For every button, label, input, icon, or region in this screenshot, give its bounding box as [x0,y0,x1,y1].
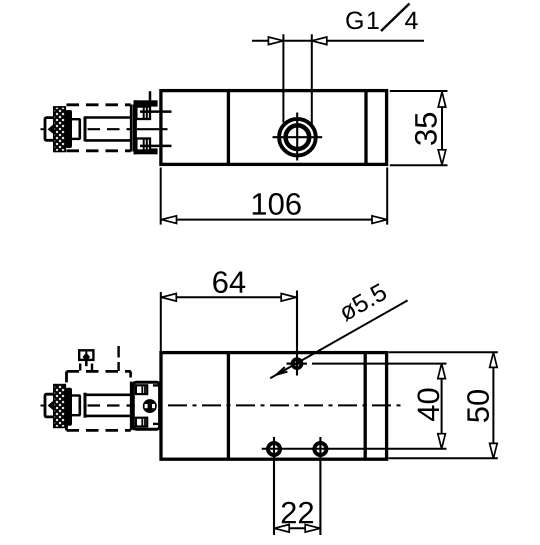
port stub line upper [140,110,172,113]
dim 106 line [162,219,388,221]
port crosshair vertical [296,113,298,161]
end plate line 2 [133,382,136,431]
stem top line [72,394,81,396]
connector wedge [83,353,91,362]
dim 40 top extension [312,363,447,365]
label G1/4 [346,12,378,30]
dim 64 dimension line [162,296,297,298]
centerline stub left [41,128,49,130]
collar line [84,116,87,141]
holes connecting line + 40 bottom extension [262,448,447,450]
dim 50 bottom extension [389,457,498,459]
label 64 [213,271,245,293]
label 50 [467,390,489,422]
dim 50 top extension [389,351,498,353]
dim 35 line [441,92,443,165]
connector pedestal dash left [79,364,81,371]
body inner line right [364,91,367,165]
tube centerline dashes [88,128,131,130]
dim 64 arrow right [281,294,296,302]
knurled knob [54,107,66,152]
dim 106 extension right [386,168,388,225]
dim 22 line [274,527,320,529]
end plate line 2 [133,105,136,152]
dim 35 arrow down [438,150,446,165]
port crosshair horizontal [273,136,323,138]
dim 64 arrow left [161,294,176,302]
cap cone [48,400,55,411]
clamp block top hatch [143,108,145,119]
G1/4 port inner circle [286,125,310,149]
dim 106 arrow right [372,216,387,224]
dim 106 extension left [160,168,162,225]
dashed coil box [67,105,131,151]
clamp block top [136,385,147,394]
centerline stub left [41,405,49,407]
stem end line [79,119,82,139]
label 35 [415,113,437,145]
collar line [84,393,87,418]
knob flange [65,388,72,426]
clamp block bottom [136,418,147,427]
stem bottom line [72,414,81,416]
dashed coil box left [65,371,68,430]
screw slot marks [145,404,148,408]
dim 22 arrow left [274,525,289,533]
dim 22 arrow right [305,525,320,533]
body inner line left [227,91,230,165]
dashed vertical at coil right [117,346,119,371]
tick above bracket [149,91,152,100]
connector pin line [85,350,87,355]
stem end line [79,396,82,416]
screw head [143,399,157,413]
dim 40 arrow up [438,364,446,379]
G1/4 arrow right (points left) [312,37,327,45]
mounting hole right [314,443,326,455]
G1/4 extension line right [311,34,313,124]
G1/4 port outer circle [279,119,316,156]
mounting hole left [268,443,280,455]
end plate line 1 [130,382,133,431]
dim 40 arrow down [438,434,446,449]
dim 50 arrow up [490,352,498,367]
body inner line left [227,353,230,459]
bracket plate outline [133,382,159,429]
leader line for hole 5.5 [270,300,407,378]
hole right vertical crosshair + 22 extension [319,437,321,535]
dim 35 arrow up [438,92,446,107]
label diameter 5.5 [337,283,388,322]
hole 5.5 crosshair horizontal [287,363,307,365]
cap cone [48,124,55,135]
hole 5.5 crosshair vertical + 64 extension [296,291,298,376]
G1/4 arrow left (points right) [268,37,283,45]
stem bottom line [72,138,81,140]
end cap [45,394,56,417]
label 40 [417,388,439,421]
connector box [79,350,93,360]
dim 50 arrow down [490,443,498,458]
valve body outline (front view) [161,353,387,460]
dashed coil box right stub [129,371,132,377]
clamp block top [136,107,150,119]
tube bottom line [85,415,131,418]
dim 40 line [441,365,443,449]
dim 50 line [492,354,494,458]
label 22 [282,502,313,524]
centerline dash-dot through body [134,404,404,406]
bracket top bar [134,100,158,106]
bracket left bar [134,100,137,154]
connector stem [85,360,88,366]
knurled knob [54,385,66,428]
bracket bottom bar [134,148,158,154]
port stub line lower [140,145,172,148]
dim 64 extension left [160,292,162,351]
centerline stub into body [137,128,168,130]
G1/4 dimension line [252,40,424,42]
tube top line [85,116,131,119]
label 106 [253,193,301,215]
connector pedestal dash right [91,364,93,371]
tube centerline dashes [88,404,131,406]
valve body outline (top view) [161,91,387,165]
dim 35 extension bottom [390,164,448,166]
dim 106 arrow left [162,216,177,224]
leader arrowhead [276,367,287,375]
clamp block top hatch [141,386,143,393]
end plate line 1 [130,105,133,152]
dashed coil box top [67,370,131,373]
stem top line [72,118,81,120]
dashed coil box bottom [67,429,131,432]
dim 35 extension top [390,90,448,92]
hole 5.5 ring [293,359,302,368]
G1/4 extension line left [282,34,284,122]
end cap [45,118,56,141]
port stub line upper [153,384,162,386]
hole left vertical crosshair + 22 extension [273,437,275,535]
tube bottom line [85,139,131,142]
clamp block bottom hatch [143,140,145,150]
clamp block bottom [136,139,150,151]
tube top line [85,393,131,396]
port stub line lower [153,423,162,425]
body inner line right [364,353,367,459]
knob flange [65,110,72,148]
clamp block bottom hatch [141,419,143,426]
